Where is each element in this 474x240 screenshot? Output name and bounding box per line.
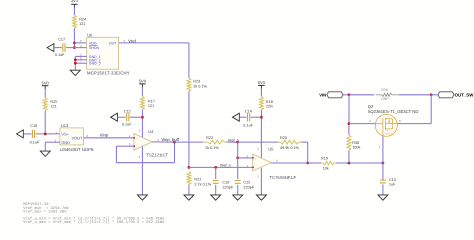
svg-text:Vinp: Vinp <box>100 133 109 138</box>
ground <box>256 195 266 200</box>
wire <box>238 141 279 143</box>
resistor R22 <box>203 141 207 143</box>
node SHDN junction <box>73 46 76 49</box>
capacitor C17 <box>62 43 64 51</box>
op-amp U4 <box>134 134 152 151</box>
capacitor C13 <box>382 163 384 180</box>
junction <box>348 93 351 96</box>
net port <box>233 113 240 121</box>
svg-text:OUT_SW: OUT_SW <box>455 92 474 97</box>
junction <box>382 162 385 165</box>
wire <box>301 141 308 143</box>
svg-text:0.1uF: 0.1uF <box>30 140 40 144</box>
svg-text:U4: U4 <box>148 129 154 134</box>
svg-text:SQ2361ES-T1_GE3CT ND: SQ2361ES-T1_GE3CT ND <box>368 109 419 114</box>
resistor R21 <box>187 172 191 185</box>
junction <box>348 162 351 165</box>
svg-text:VIN: VIN <box>319 92 326 97</box>
wire <box>237 142 239 158</box>
svg-text:R38: R38 <box>352 141 359 145</box>
svg-text:LM4040DT NOPB: LM4040DT NOPB <box>60 147 94 152</box>
svg-text:R18: R18 <box>266 100 273 104</box>
svg-text:VS+: VS+ <box>61 132 69 137</box>
svg-text:C14: C14 <box>245 109 252 113</box>
svg-text:Vref_n: Vref_n <box>220 163 231 167</box>
wire <box>260 110 262 158</box>
resistor R38 <box>347 135 351 150</box>
svg-text:220pF: 220pF <box>222 185 233 189</box>
wire gate <box>382 129 384 136</box>
junction <box>236 141 239 144</box>
svg-text:Vinp_buff: Vinp_buff <box>161 137 179 142</box>
svg-text:0.1uF: 0.1uF <box>55 53 65 57</box>
svg-text:3V3: 3V3 <box>71 0 79 3</box>
svg-text:R36: R36 <box>381 88 388 92</box>
wire out U4 <box>152 141 175 143</box>
wire <box>227 141 238 143</box>
wire <box>45 141 60 143</box>
op-amp U6 body <box>87 37 119 69</box>
svg-text:C15: C15 <box>243 181 250 185</box>
svg-text:+: + <box>255 157 257 161</box>
wire <box>188 91 190 167</box>
ground <box>233 195 243 200</box>
wire <box>130 116 143 118</box>
svg-text:121: 121 <box>50 105 56 109</box>
wire <box>36 133 60 135</box>
svg-text:OUT: OUT <box>109 41 117 45</box>
wire Vref <box>119 42 189 44</box>
resistor R17 <box>141 96 145 109</box>
svg-text:GND_3: GND_3 <box>89 62 101 66</box>
op-amp U13 body <box>60 128 84 145</box>
net port <box>47 44 54 52</box>
wire <box>260 168 262 195</box>
port VIN <box>327 92 343 98</box>
svg-text:VDD: VDD <box>89 41 97 45</box>
svg-text:5V0: 5V0 <box>258 80 266 85</box>
junction <box>44 133 47 136</box>
wire <box>141 87 143 96</box>
wire Vinp <box>84 137 134 139</box>
wire <box>348 95 350 124</box>
svg-text:TSZ121ICT: TSZ121ICT <box>146 152 168 157</box>
wire <box>66 47 87 49</box>
svg-text:-: - <box>255 166 256 170</box>
svg-text:MCP1501T-33E/CHY: MCP1501T-33E/CHY <box>87 71 130 76</box>
resistor R24 <box>73 15 77 28</box>
wire out U5 <box>271 162 308 164</box>
svg-text:0.1uF: 0.1uF <box>122 123 132 127</box>
svg-text:U5: U5 <box>268 147 274 152</box>
junction <box>306 162 309 165</box>
svg-text:U13: U13 <box>61 123 69 128</box>
capacitor C12 <box>126 113 128 121</box>
net port <box>17 130 24 138</box>
junction <box>214 166 217 169</box>
wire <box>75 59 86 61</box>
junction <box>74 62 77 65</box>
svg-text:R21: R21 <box>194 178 201 182</box>
wire <box>73 8 75 15</box>
svg-text:DNP: DNP <box>381 97 389 101</box>
wire <box>117 116 125 118</box>
svg-text:U6: U6 <box>87 33 93 38</box>
junction <box>260 116 263 119</box>
wire <box>188 185 190 195</box>
svg-text:C17: C17 <box>58 37 65 41</box>
wire <box>73 28 75 47</box>
op-amp U5 <box>253 154 271 171</box>
wire <box>260 89 262 97</box>
svg-text:-: - <box>136 146 137 150</box>
svg-text:Vref_max = 3303.3mV: Vref_max = 3303.3mV <box>23 209 67 214</box>
wire <box>430 95 432 124</box>
wire <box>129 145 134 147</box>
junction <box>348 122 351 125</box>
capacitor C18 <box>31 130 33 138</box>
svg-text:5V0: 5V0 <box>139 79 147 84</box>
svg-text:C12: C12 <box>124 109 131 113</box>
svg-text:100k: 100k <box>352 146 360 150</box>
svg-text:R23: R23 <box>193 80 200 84</box>
ground <box>184 195 194 200</box>
svg-text:SHDN: SHDN <box>89 46 100 50</box>
svg-text:C18: C18 <box>30 124 37 128</box>
junction <box>173 141 176 144</box>
wire <box>188 43 190 78</box>
wire <box>75 62 86 64</box>
wire Vref_n <box>189 166 253 168</box>
wire feedback <box>116 145 128 147</box>
svg-text:R24: R24 <box>79 17 86 21</box>
wire <box>399 94 432 96</box>
svg-text:C16: C16 <box>222 181 229 185</box>
wire <box>239 116 246 118</box>
ground <box>211 195 221 200</box>
wire <box>308 162 321 164</box>
svg-text:2.7k 0.1%: 2.7k 0.1% <box>194 182 212 186</box>
wire <box>74 42 86 44</box>
capacitor C14 <box>247 113 249 121</box>
resistor R25 <box>43 98 47 111</box>
wire <box>141 146 143 195</box>
svg-text:R19: R19 <box>321 157 328 161</box>
pin dot <box>252 157 254 159</box>
node VDD junction <box>73 42 76 45</box>
wire <box>238 157 253 159</box>
transistor Q2 <box>375 114 397 136</box>
svg-text:1k 0.1%: 1k 0.1% <box>193 84 207 88</box>
wire <box>141 110 143 138</box>
svg-text:10k: 10k <box>323 167 329 171</box>
svg-text:R22: R22 <box>206 136 213 140</box>
pin dot <box>133 145 135 147</box>
svg-text:C13: C13 <box>389 178 396 182</box>
wire <box>349 123 376 125</box>
resistor R20 <box>278 141 280 143</box>
wire <box>44 142 46 151</box>
resistor R23 <box>187 78 191 91</box>
wire <box>348 124 350 135</box>
svg-text:SQ2361: SQ2361 <box>385 132 392 135</box>
capacitor C15 <box>237 158 239 179</box>
wire <box>23 133 31 135</box>
svg-text:5V0: 5V0 <box>42 80 50 85</box>
wire <box>75 55 86 57</box>
wire <box>348 150 350 163</box>
svg-text:121: 121 <box>148 104 154 108</box>
svg-text:VOUT: VOUT <box>72 135 83 140</box>
svg-text:+: + <box>136 136 138 140</box>
net port <box>111 113 118 121</box>
wire <box>251 116 262 118</box>
ground <box>137 195 147 200</box>
svg-text:0.1uF: 0.1uF <box>243 124 253 128</box>
svg-text:Vref_o_max = Vref_max * (2.7/(: Vref_o_max = Vref_max * (2.7/(11+2.7)) *… <box>23 220 165 225</box>
wire <box>74 56 76 70</box>
resistor R18 <box>260 97 264 110</box>
junction <box>236 157 239 160</box>
pin dot <box>133 137 135 139</box>
svg-text:R25: R25 <box>50 100 57 104</box>
svg-text:1uF: 1uF <box>389 183 396 187</box>
ground <box>40 151 50 156</box>
wire <box>54 47 62 49</box>
svg-text:49.9k 0.1%: 49.9k 0.1% <box>280 146 300 150</box>
port OUT_SW <box>438 92 454 98</box>
junction <box>74 58 77 61</box>
svg-text:R17: R17 <box>148 100 155 104</box>
junction <box>430 93 433 96</box>
wire <box>343 94 349 96</box>
wire <box>336 162 383 164</box>
svg-text:220pF: 220pF <box>243 185 254 189</box>
svg-text:R20: R20 <box>280 136 287 140</box>
junction <box>141 116 144 119</box>
ground <box>378 195 388 200</box>
junction <box>188 166 191 169</box>
wire <box>175 141 204 143</box>
svg-text:GND: GND <box>61 140 70 145</box>
resistor R19 <box>321 162 323 164</box>
svg-text:22R: 22R <box>266 105 273 109</box>
svg-text:1k 0.1%: 1k 0.1% <box>205 146 219 150</box>
wire <box>44 111 46 134</box>
pin dot <box>252 167 254 169</box>
ground <box>70 70 80 75</box>
capacitor C16 <box>215 167 217 179</box>
svg-text:TC75S5NF,LF: TC75S5NF,LF <box>270 175 297 180</box>
wire <box>44 89 46 98</box>
svg-text:121: 121 <box>79 22 85 26</box>
resistor R36 DNP <box>349 94 374 96</box>
